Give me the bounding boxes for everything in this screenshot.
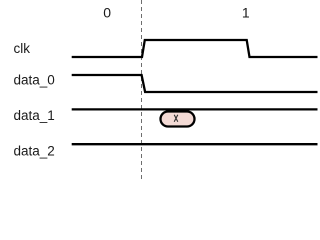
wire data_0 waveform	[72, 75, 318, 92]
wire data_2 waveform	[72, 143, 318, 145]
signal label clk	[14, 41, 31, 56]
svg-text:clk: clk	[14, 41, 31, 56]
node X unknown-value pill on data_1	[161, 112, 195, 127]
node X label (drawn as crossing strokes)	[174, 115, 178, 122]
wire clk waveform	[72, 40, 318, 57]
cycle number 0	[103, 5, 111, 21]
svg-text:data_2: data_2	[14, 144, 55, 159]
wire data_1 waveform	[72, 108, 318, 110]
svg-text:data_0: data_0	[14, 73, 55, 88]
cycle number 1	[242, 5, 250, 21]
signal label data_1	[14, 108, 55, 123]
signal label data_2	[14, 144, 55, 159]
svg-text:0: 0	[103, 5, 111, 21]
svg-text:1: 1	[242, 5, 250, 21]
svg-text:data_1: data_1	[14, 108, 55, 123]
signal label data_0	[14, 73, 55, 88]
dashed cursor line	[141, 0, 143, 180]
